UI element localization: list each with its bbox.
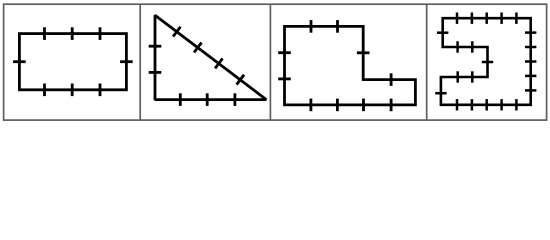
shape 4 right edge ticks <box>525 33 536 91</box>
shape 3 upper right edge tick <box>357 51 370 54</box>
shape 4 lower left edge tick <box>435 92 446 95</box>
shape 4 notch top edge ticks <box>458 41 473 52</box>
shape 2: right triangle outline <box>155 15 266 99</box>
shape 4 bottom edge ticks <box>457 99 516 110</box>
shape 1 bottom edge ticks <box>45 84 101 97</box>
shape 4 top edge ticks <box>457 13 516 24</box>
shape 4 notch right wall tick <box>482 61 493 64</box>
shape 2 bottom edge ticks <box>180 93 235 106</box>
shape 1 right edge tick <box>120 60 133 63</box>
shape 2 left edge ticks <box>149 46 162 72</box>
shape 4: notched C-shape outline <box>441 18 531 105</box>
shape 3 top edge ticks <box>311 20 338 33</box>
shape 3 middle step edge tick <box>390 73 393 86</box>
shape 3 bottom edge ticks <box>311 99 391 112</box>
shape 3 left edge ticks <box>278 53 291 79</box>
table frame outer border <box>4 4 547 120</box>
cell divider 3-4 <box>426 4 428 120</box>
shape 3: L-shape outline <box>285 26 416 105</box>
shape 4 upper left edge tick <box>437 31 448 34</box>
shape 4 notch bottom edge ticks <box>458 71 473 82</box>
cell divider 1-2 <box>139 4 141 120</box>
shape 1 top edge ticks <box>45 27 101 40</box>
shape 1: rectangle outline <box>19 34 126 90</box>
cell divider 2-3 <box>269 4 271 120</box>
shape 2 hypotenuse ticks <box>173 27 244 85</box>
shape 1 left edge tick <box>13 60 26 63</box>
